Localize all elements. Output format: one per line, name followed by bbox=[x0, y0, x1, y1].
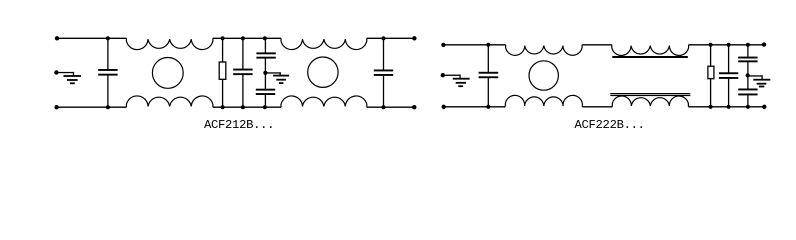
capacitor C1 leads bbox=[107, 38, 109, 69]
ground G4 (Y-cap midpoint earth, circuit 2) bbox=[748, 75, 763, 76]
inductor L4 (top iron-core inductor) winding bbox=[612, 45, 689, 56]
junction node: C1 bottom bbox=[106, 105, 110, 109]
wire: circuit2 top rail segment 2 bbox=[582, 44, 612, 46]
inductor L2 bottom winding (common-mode choke 2) bbox=[281, 96, 367, 107]
junction node: C5 bottom bbox=[381, 105, 385, 109]
wire: circuit2 bottom rail segment 3 bbox=[688, 106, 764, 108]
junction node: C6 top bbox=[486, 43, 490, 47]
resistor R2 body bbox=[708, 66, 714, 79]
junction node: Y-cap midpoint circuit 1 bbox=[263, 71, 267, 75]
terminal dot: circuit2 output line (top right) bbox=[762, 42, 766, 46]
terminal dot: circuit1 output line (top right) bbox=[412, 36, 416, 40]
capacitor C4 plates (bottom Y-cap) bbox=[256, 89, 275, 91]
terminal dot: circuit2 input neutral (bottom left) bbox=[442, 105, 446, 109]
wire: circuit1 top rail segment 1 bbox=[57, 37, 127, 39]
capacitor C5 plates bbox=[374, 70, 393, 72]
wire: circuit1 bottom rail segment 1 bbox=[56, 106, 126, 108]
terminal dot: circuit2 input earth bbox=[441, 73, 445, 77]
junction node: R2 bottom bbox=[709, 105, 713, 109]
capacitor C3 plates (top Y-cap) bbox=[256, 52, 275, 54]
capacitor C6 leads bbox=[487, 45, 489, 72]
wire: circuit2 top rail segment 1 bbox=[443, 44, 506, 46]
ground G3 (input earth stub, circuit 2) bbox=[442, 75, 460, 76]
junction node: C2 bottom bbox=[241, 105, 245, 109]
inductor L3 bottom winding (common-mode choke 3) bbox=[505, 95, 582, 106]
capacitor C7 leads bbox=[728, 45, 730, 73]
junction node: C7 top bbox=[727, 43, 731, 47]
core circle of choke 1 bbox=[152, 58, 183, 89]
label: ACF222B... (circuit 2 part number) bbox=[575, 118, 645, 132]
wire: circuit1 top rail segment 2 bbox=[213, 37, 281, 39]
inductor L2 top winding (common-mode choke 2) bbox=[281, 38, 367, 49]
label: ACF212B... (circuit 1 part number) bbox=[204, 118, 274, 132]
wire: circuit2 bottom rail segment 1 bbox=[443, 106, 505, 108]
wire: circuit2 bottom rail segment 2 bbox=[582, 106, 612, 108]
core circle of choke 2 bbox=[308, 57, 338, 87]
junction node: C2 top bbox=[241, 36, 245, 40]
junction node: Y-cap midpoint circuit 2 bbox=[746, 73, 750, 77]
capacitor C2 leads bbox=[242, 38, 244, 69]
core circle of choke 3 bbox=[529, 61, 558, 90]
terminal dot: circuit2 output neutral (bottom right) bbox=[762, 105, 766, 109]
junction node: R2 top bbox=[709, 43, 713, 47]
capacitor C7 plates bbox=[719, 72, 738, 74]
junction node: R1 top bbox=[221, 36, 225, 40]
ground G1 (input earth stub, circuit 1) bbox=[56, 72, 74, 73]
capacitor C8 plates (top Y-cap circuit 2) bbox=[738, 57, 757, 59]
junction node: C4 bottom bbox=[263, 105, 267, 109]
inductor L5 (bottom iron-core inductor) winding bbox=[612, 96, 688, 107]
capacitor C3/C4 leads (Y-caps) bbox=[264, 38, 266, 52]
wire: circuit1 bottom rail segment 3 bbox=[367, 106, 415, 108]
terminal dot: circuit1 output neutral (bottom right) bbox=[412, 105, 416, 109]
iron core bar of L4 bbox=[612, 56, 688, 58]
capacitor C6 plates bbox=[479, 72, 499, 74]
resistor R1 leads bbox=[222, 38, 224, 62]
inductor L1 bottom winding (common-mode choke 1) bbox=[126, 96, 212, 107]
junction node: C6 bottom bbox=[486, 105, 490, 109]
resistor R1 body bbox=[219, 62, 226, 79]
terminal dot: circuit1 input earth bbox=[54, 70, 58, 74]
junction node: C3 top bbox=[263, 36, 267, 40]
terminal dot: circuit1 input line (top left) bbox=[55, 36, 59, 40]
junction node: R1 bottom bbox=[221, 105, 225, 109]
junction node: C9 bottom bbox=[746, 105, 750, 109]
junction node: C5 top bbox=[381, 36, 385, 40]
capacitor C2 plates bbox=[233, 69, 252, 71]
wire: circuit1 top rail segment 3 bbox=[367, 37, 415, 39]
junction node: C7 bottom bbox=[727, 105, 731, 109]
terminal dot: circuit2 input line (top left) bbox=[441, 43, 445, 47]
resistor R2 leads bbox=[710, 45, 712, 66]
ground G2 (Y-cap midpoint earth, circuit 1) bbox=[265, 72, 280, 73]
capacitor C5 leads bbox=[383, 38, 385, 69]
capacitor C8/C9 leads (Y-caps circuit 2) bbox=[747, 45, 749, 57]
junction node: C8 top bbox=[746, 43, 750, 47]
terminal dot: circuit1 input neutral (bottom left) bbox=[54, 105, 58, 109]
capacitor C9 plates (bottom Y-cap circuit 2) bbox=[738, 89, 757, 91]
inductor L1 top winding (common-mode choke 1) bbox=[126, 38, 212, 49]
capacitor C1 plates bbox=[98, 69, 117, 71]
wire: circuit1 bottom rail segment 2 bbox=[213, 106, 281, 108]
junction node: C1 top bbox=[106, 36, 110, 40]
inductor L3 top winding (common-mode choke 3) bbox=[506, 45, 582, 56]
wire: circuit2 top rail segment 3 bbox=[689, 44, 765, 46]
iron core double bar of L5 bbox=[610, 93, 690, 94]
